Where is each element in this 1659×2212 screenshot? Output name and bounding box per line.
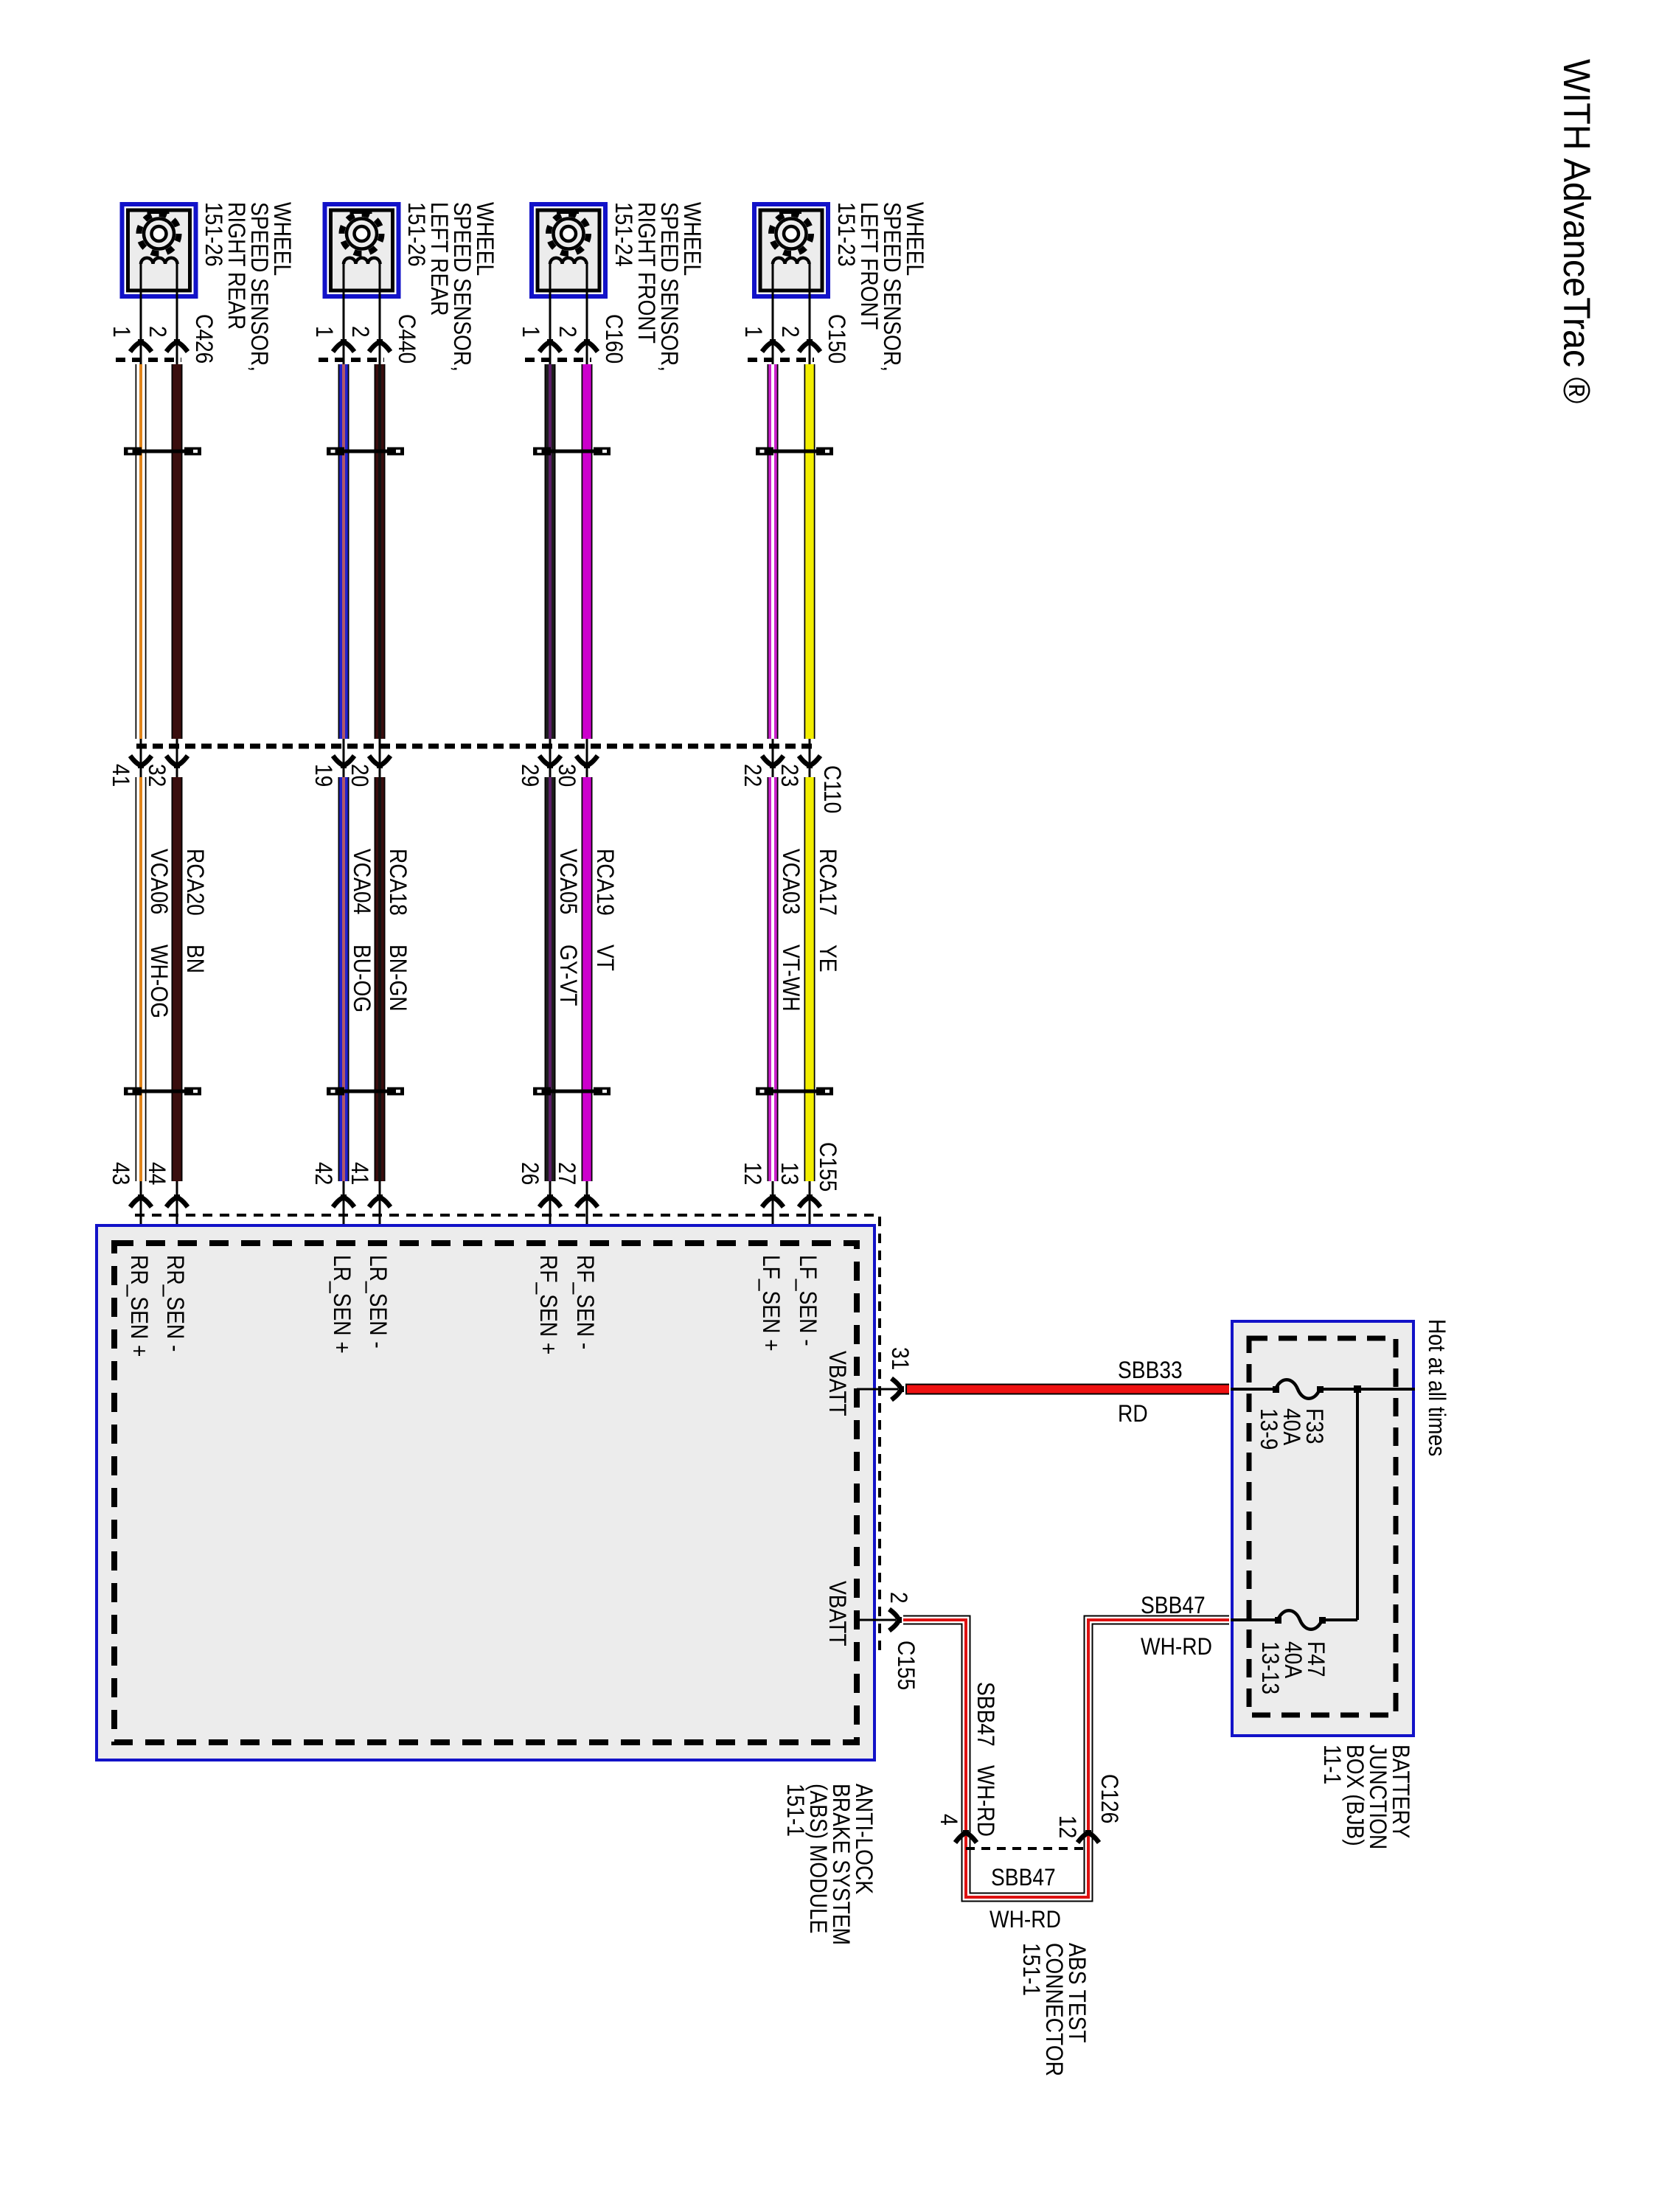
connector C110 arrow pair 2 pin1 bbox=[333, 756, 355, 768]
wire VT lower segment (pin2 pair 3) bbox=[582, 777, 593, 1181]
circuit label RCA19 bbox=[594, 849, 616, 916]
wire BU-OG lower segment (pin1 pair 2) bbox=[338, 777, 349, 1181]
gear icon of sensor 2 bbox=[342, 214, 382, 254]
label SBB47 vertical bbox=[974, 1682, 997, 1747]
battery junction box (BJB) bbox=[1232, 1321, 1413, 1736]
wheel speed sensor box 3 (RIGHT FRONT WHEEL) bbox=[532, 204, 605, 296]
connector C160 dashed line bbox=[525, 358, 591, 362]
wire VT upper segment (pin2 pair 3) bbox=[582, 364, 593, 739]
wire YE upper segment (pin2 pair 4) bbox=[804, 364, 815, 739]
pin number 1 of C160 bbox=[519, 326, 542, 338]
ABS pin label RF_SEN - bbox=[574, 1255, 597, 1349]
label WH-RD vertical bbox=[974, 1765, 997, 1837]
BJB inner dashed border bbox=[1249, 1338, 1396, 1715]
connector C440 dashed line bbox=[319, 358, 384, 362]
pin number 31 bbox=[888, 1347, 911, 1370]
colour label BN-GN bbox=[386, 945, 409, 1012]
wire SBB33 RD (red power feed) bbox=[905, 1384, 1229, 1395]
pin number 2 of C440 bbox=[349, 326, 372, 338]
label connector C110 bbox=[821, 765, 844, 813]
pin number 2 of C160 bbox=[556, 326, 579, 338]
connector C155 arrow pair 4 pin2 bbox=[799, 1194, 821, 1207]
wire lead pin2 of sensor 3 bbox=[586, 264, 588, 1243]
connector C110 arrow pair 4 pin1 bbox=[762, 756, 784, 768]
connector C110 arrow pair 3 pin2 bbox=[577, 756, 598, 768]
connector C160 arrow pin1 bbox=[540, 339, 561, 352]
wire WH-OG lower segment (pin1 pair 1) bbox=[136, 777, 147, 1181]
label wheel speed sensor 2 bbox=[405, 202, 496, 372]
connector C110 arrow pair 1 pin1 bbox=[131, 756, 152, 768]
C110 pin 32 bbox=[145, 764, 168, 787]
wire SBB47 WH-RD (white-red) bbox=[903, 1620, 1229, 1897]
VBATT pin 31 lead bbox=[857, 1388, 898, 1391]
circuit label VCA05 bbox=[557, 849, 580, 914]
wire BN-GN upper segment (pin2 pair 2) bbox=[375, 364, 386, 739]
connector C155 arrow pair 2 pin2 bbox=[369, 1194, 391, 1207]
wire GY-VT lower segment (pin1 pair 3) bbox=[545, 777, 556, 1181]
connector C155 arrow pair 3 pin1 bbox=[540, 1194, 561, 1207]
ABS pin label LR_SEN - bbox=[366, 1255, 389, 1349]
harness clip lower pair 4 bbox=[756, 1088, 833, 1096]
colour label VT bbox=[594, 945, 616, 971]
colour label BN bbox=[184, 945, 206, 973]
wheel speed sensor box 1 (RIGHT REAR WHEEL) bbox=[122, 204, 196, 296]
C110 pin 19 bbox=[312, 764, 335, 787]
C155 pin 27 bbox=[555, 1162, 578, 1185]
C155 pin 43 bbox=[109, 1162, 132, 1185]
label WH-RD at BJB bbox=[1141, 1635, 1212, 1658]
ABS pin label LR_SEN + bbox=[330, 1255, 353, 1354]
connector C155 arrow pair 1 pin1 bbox=[131, 1194, 152, 1207]
connector C440 arrow pin1 bbox=[333, 339, 355, 352]
wire BN lower segment (pin2 pair 1) bbox=[172, 777, 183, 1181]
bus wire between F33 and F47 bbox=[1356, 1389, 1359, 1620]
title WITH AdvanceTrac bbox=[1558, 59, 1595, 403]
colour label GY-VT bbox=[557, 945, 580, 1006]
connector C126 arrow pin 4 bbox=[956, 1830, 977, 1843]
ABS pin label RF_SEN + bbox=[537, 1255, 560, 1354]
pin number 2 of C150 bbox=[779, 326, 801, 338]
connector C110 arrow pair 4 pin2 bbox=[799, 756, 821, 768]
connector C150 arrow pin2 bbox=[799, 339, 821, 352]
gear icon of sensor 3 bbox=[549, 214, 588, 254]
wire GY-VT upper segment (pin1 pair 3) bbox=[545, 364, 556, 739]
circuit label RCA20 bbox=[184, 849, 206, 916]
wire lead pin2 of sensor 4 bbox=[809, 264, 811, 1243]
wire VT-WH upper segment (pin1 pair 4) bbox=[768, 364, 779, 739]
wire BN-GN lower segment (pin2 pair 2) bbox=[375, 777, 386, 1181]
wire lead pin2 of sensor 1 bbox=[176, 264, 178, 1243]
label connector C150 bbox=[825, 314, 848, 364]
wire BU-OG upper segment (pin1 pair 2) bbox=[338, 364, 349, 739]
circuit label VCA03 bbox=[779, 849, 802, 914]
connector C155 arrow pair 2 pin1 bbox=[333, 1194, 355, 1207]
harness clip lower pair 2 bbox=[327, 1088, 404, 1096]
wheel speed sensor box 2 (LEFT REAR WHEEL) bbox=[325, 204, 399, 296]
label C155 at pin2 bbox=[894, 1641, 917, 1690]
label wheel speed sensor 3 bbox=[612, 202, 703, 372]
label VBATT pin31 bbox=[826, 1351, 849, 1416]
C155 pin 13 bbox=[778, 1162, 801, 1185]
label ABS module bbox=[784, 1784, 875, 1945]
label wheel speed sensor 4 bbox=[835, 202, 926, 372]
C155 pin 26 bbox=[518, 1162, 541, 1185]
coil symbol of sensor 3 bbox=[550, 258, 587, 264]
C110 pin 20 bbox=[348, 764, 371, 787]
connector C160 arrow pin2 bbox=[577, 339, 598, 352]
label VBATT pin2 bbox=[826, 1581, 849, 1646]
C155 pin 41 bbox=[348, 1162, 371, 1185]
wheel speed sensor box 4 (LEFT FRONT WHEEL) bbox=[754, 204, 828, 296]
VBATT pin 2 connector arrow bbox=[889, 1610, 902, 1631]
harness clip lower pair 1 bbox=[124, 1088, 201, 1096]
colour label YE bbox=[816, 945, 839, 973]
C110 pin 41 bbox=[109, 764, 132, 787]
label connector C155 bbox=[816, 1142, 839, 1192]
connector C126 arrow pin 12 bbox=[1078, 1830, 1099, 1843]
label wheel speed sensor 1 bbox=[202, 202, 293, 372]
connector C426 arrow pin2 bbox=[167, 339, 188, 352]
pin number 2 (VBATT) bbox=[887, 1592, 910, 1604]
wire lead pin2 of sensor 2 bbox=[379, 264, 381, 1243]
connector C150 dashed line bbox=[748, 358, 814, 362]
C110 pin 23 bbox=[778, 764, 801, 787]
gear icon of sensor 1 bbox=[139, 214, 179, 254]
label battery junction box bbox=[1321, 1745, 1412, 1849]
connector C426 arrow pin1 bbox=[131, 339, 152, 352]
colour label WH-OG bbox=[147, 945, 170, 1018]
label WH-RD at test connector bbox=[990, 1908, 1061, 1931]
label connector C126 bbox=[1098, 1774, 1121, 1823]
harness clip lower pair 3 bbox=[533, 1088, 611, 1096]
wire YE lower segment (pin2 pair 4) bbox=[804, 777, 815, 1181]
fuse F33 40A bbox=[1231, 1388, 1276, 1391]
circuit label VCA06 bbox=[147, 849, 170, 914]
label SBB47 at test connector bbox=[991, 1866, 1056, 1889]
connector C110 dashed line bbox=[136, 744, 815, 749]
wire lead pin1 of sensor 4 bbox=[772, 264, 774, 1243]
colour label BU-OG bbox=[350, 945, 373, 1012]
ABS pin label LF_SEN + bbox=[759, 1255, 782, 1352]
connector C110 arrow pair 3 pin1 bbox=[540, 756, 561, 768]
pin number 1 of C150 bbox=[742, 326, 765, 338]
connector C126 dashed line bbox=[966, 1847, 1088, 1850]
label connector C440 bbox=[395, 314, 418, 364]
ABS pin label LF_SEN - bbox=[796, 1255, 819, 1346]
pin number 2 of C426 bbox=[146, 326, 169, 338]
label SBB47 at BJB bbox=[1141, 1594, 1206, 1617]
ABS module box bbox=[97, 1225, 874, 1760]
connector C155 arrow pair 4 pin1 bbox=[762, 1194, 784, 1207]
connector C150 arrow pin1 bbox=[762, 339, 784, 352]
wire lead pin1 of sensor 3 bbox=[549, 264, 552, 1243]
wire BN upper segment (pin2 pair 1) bbox=[172, 364, 183, 739]
coil symbol of sensor 1 bbox=[141, 258, 178, 264]
circuit label VCA04 bbox=[350, 849, 373, 914]
harness clip upper pair 4 bbox=[756, 448, 833, 456]
label ABS test connector bbox=[1020, 1943, 1088, 2076]
label fuse F47 bbox=[1259, 1641, 1327, 1694]
wire lead pin1 of sensor 1 bbox=[140, 264, 142, 1243]
connector C440 arrow pin2 bbox=[369, 339, 391, 352]
coil symbol of sensor 2 bbox=[344, 258, 380, 264]
VBATT pin 31 connector arrow bbox=[891, 1379, 904, 1400]
C155 pin 42 bbox=[312, 1162, 335, 1185]
connector C426 dashed line bbox=[116, 358, 181, 362]
label Hot at all times bbox=[1425, 1319, 1448, 1456]
connector C110 arrow pair 2 pin2 bbox=[369, 756, 391, 768]
ABS pin label RR_SEN + bbox=[128, 1255, 150, 1357]
label connector C426 bbox=[192, 314, 215, 364]
ABS pin label RR_SEN - bbox=[164, 1255, 187, 1352]
fuse F47 40A bbox=[1231, 1618, 1278, 1621]
harness clip upper pair 2 bbox=[327, 448, 404, 456]
harness clip upper pair 3 bbox=[533, 448, 611, 456]
C110 pin 22 bbox=[741, 764, 764, 787]
C155 pin 12 bbox=[741, 1162, 764, 1185]
circuit label RCA17 bbox=[816, 849, 839, 916]
pin number 1 of C440 bbox=[313, 326, 335, 338]
label connector C160 bbox=[602, 314, 625, 364]
wire VT-WH lower segment (pin1 pair 4) bbox=[768, 777, 779, 1181]
junction dot on F33 feed bbox=[1354, 1385, 1361, 1393]
VBATT pin 2 lead bbox=[857, 1619, 896, 1621]
C155 pin 44 bbox=[145, 1162, 168, 1185]
label SBB33 bbox=[1118, 1359, 1183, 1382]
connector C155 dashed line bbox=[135, 1215, 880, 1654]
pin number 4 bbox=[937, 1814, 960, 1826]
pin number 12 bbox=[1056, 1815, 1079, 1838]
coil symbol of sensor 4 bbox=[773, 258, 810, 264]
circuit label RCA18 bbox=[386, 849, 409, 916]
wire lead pin1 of sensor 2 bbox=[343, 264, 345, 1243]
connector C155 arrow pair 3 pin2 bbox=[577, 1194, 598, 1207]
label fuse F33 bbox=[1257, 1408, 1326, 1450]
wire WH-OG upper segment (pin1 pair 1) bbox=[136, 364, 147, 739]
gear icon of sensor 4 bbox=[771, 214, 811, 254]
connector C110 arrow pair 1 pin2 bbox=[167, 756, 188, 768]
C110 pin 30 bbox=[555, 764, 578, 787]
label RD bbox=[1118, 1402, 1148, 1425]
ABS module inner dashed border bbox=[114, 1243, 857, 1742]
connector C155 arrow pair 1 pin2 bbox=[167, 1194, 188, 1207]
pin number 1 of C426 bbox=[110, 326, 133, 338]
colour label VT-WH bbox=[779, 945, 802, 1012]
harness clip upper pair 1 bbox=[124, 448, 201, 456]
C110 pin 29 bbox=[518, 764, 541, 787]
